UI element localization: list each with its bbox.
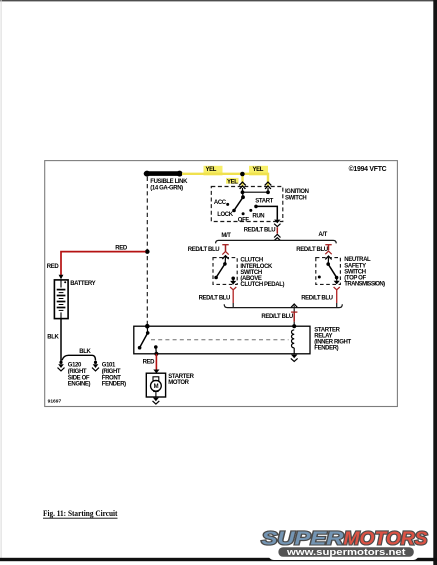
label G120: [68, 362, 91, 387]
svg-text:YEL: YEL: [227, 179, 238, 185]
label G101: [102, 362, 126, 387]
contact LOCK: [232, 209, 236, 213]
svg-text:(INNER RIGHT: (INNER RIGHT: [314, 340, 351, 346]
wire relay pivot stem: [146, 326, 148, 333]
figure caption: [43, 508, 118, 518]
svg-text:SWITCH: SWITCH: [344, 269, 365, 275]
contact (clutch switch output): [231, 277, 235, 281]
wire RED/LT BLU drop to neutral safety switch: [325, 245, 331, 255]
wire RED/LT BLU relay coil feed: [291, 306, 297, 327]
svg-text:STARTER: STARTER: [168, 374, 194, 380]
svg-text:FENDER): FENDER): [102, 382, 126, 388]
svg-text:FUSIBLE LINK: FUSIBLE LINK: [150, 179, 188, 185]
svg-text:(14 GA-GRN): (14 GA-GRN): [150, 186, 183, 192]
arrowhead NSS exit: [334, 281, 340, 285]
svg-text:TRANSMISSION): TRANSMISSION): [344, 282, 385, 288]
wire RED battery to junction: [61, 252, 146, 278]
wire YEL horizontal from fusible link to ignition switch: [182, 166, 268, 187]
switch blade (clutch interlock, open): [216, 264, 225, 278]
svg-text:G101: G101: [102, 362, 116, 368]
svg-text:CLUTCH: CLUTCH: [240, 258, 262, 264]
svg-text:RED: RED: [115, 246, 128, 252]
contact (relay output): [154, 345, 158, 349]
dashed feed line from fusible link to starter relay: [146, 177, 148, 326]
wire RED/LT BLU clutch switch to join bus: [232, 290, 234, 308]
label STARTER MOTOR: [168, 374, 194, 386]
wire RED relay to starter motor: [155, 354, 157, 370]
switch blade (ignition): [234, 197, 243, 210]
svg-text:SAFETY: SAFETY: [344, 263, 366, 269]
svg-text:STARTER: STARTER: [314, 327, 340, 333]
starter motor box: [146, 373, 165, 397]
svg-text:A/T: A/T: [318, 232, 327, 238]
svg-text:Fig. 11: Starting Circuit: Fig. 11: Starting Circuit: [43, 508, 118, 518]
svg-text:(RIGHT: (RIGHT: [68, 369, 87, 375]
svg-text:SWITCH: SWITCH: [285, 196, 306, 202]
battery: [54, 280, 68, 319]
svg-text:SUPER: SUPER: [262, 528, 345, 549]
connector halves into branch bus: [274, 234, 280, 240]
contact (NSS output): [335, 276, 339, 280]
contact RUN: [249, 209, 252, 212]
clutch interlock switch box: [213, 258, 237, 285]
contact START: [254, 205, 258, 209]
svg-text:RED/LT BLU: RED/LT BLU: [296, 247, 327, 253]
neutral safety switch box: [316, 258, 341, 285]
svg-text:BATTERY: BATTERY: [70, 281, 95, 287]
junction dot on YEL wire: [240, 172, 245, 177]
svg-text:BLK: BLK: [47, 335, 59, 341]
wire clutch output exit: [232, 278, 234, 281]
relay armature dashed link: [151, 339, 289, 341]
wire BLK ground strap G120 to G101: [62, 355, 96, 360]
svg-text:CLUTCH PEDAL): CLUTCH PEDAL): [240, 282, 284, 288]
svg-text:ENGINE): ENGINE): [68, 382, 91, 388]
svg-text:©1994 VFTC: ©1994 VFTC: [349, 165, 387, 173]
diagram border frame: [45, 161, 398, 407]
svg-text:www.supermotors.net: www.supermotors.net: [286, 547, 406, 557]
svg-text:M: M: [154, 384, 159, 390]
connector terminal (left, ignition switch): [239, 182, 246, 189]
switch blade (NSS, closed): [328, 264, 336, 277]
svg-text:RED/LT BLU: RED/LT BLU: [199, 296, 230, 302]
svg-text:START: START: [255, 199, 273, 205]
label IGNITION SWITCH: [285, 189, 309, 202]
svg-text:RED/LT BLU: RED/LT BLU: [244, 228, 275, 234]
wire NSS output exit: [336, 278, 338, 281]
svg-text:(RIGHT: (RIGHT: [102, 369, 121, 375]
svg-text:RED/LT BLU: RED/LT BLU: [188, 247, 219, 253]
ground (relay coil): [291, 348, 298, 362]
connector terminal (clutch switch top): [222, 256, 228, 263]
svg-text:91697: 91697: [48, 399, 62, 405]
node NSS pivot: [326, 262, 330, 266]
page frame bottom bar: [0, 558, 437, 561]
svg-text:RUN: RUN: [252, 213, 264, 219]
wire RED/LT BLU NSS to join bus: [336, 290, 338, 308]
wire RED/LT BLU tick (START): [276, 227, 278, 233]
svg-text:G120: G120: [68, 362, 82, 368]
node relay feed (on box top): [145, 324, 150, 329]
connector terminal (right, ignition switch): [265, 182, 272, 189]
ignition switch box: [211, 187, 282, 222]
contact (blade end): [214, 276, 218, 280]
ground G120: [58, 361, 65, 371]
arrowhead START exit: [274, 220, 280, 224]
wire ignition switch common bus: [241, 188, 270, 194]
arrowhead clutch exit: [230, 281, 236, 285]
wire YEL branch to left ignition terminal: [226, 174, 243, 187]
node ignition pivot: [241, 192, 245, 199]
starter motor symbol: [151, 377, 162, 397]
supermotors watermark: [262, 528, 429, 560]
wire BLK battery to ground: [60, 319, 62, 361]
wire branch bus M/T - A/T: [216, 240, 337, 243]
node relay coil feed (on box top): [292, 324, 296, 328]
svg-text:M/T: M/T: [221, 233, 231, 239]
connector half below START arrow: [274, 224, 280, 227]
fusible link value label: [150, 179, 188, 191]
relay coil: [292, 330, 295, 348]
svg-text:(TOP OF: (TOP OF: [344, 276, 366, 282]
page frame right edge: [433, 0, 437, 565]
svg-text:FENDER): FENDER): [314, 346, 338, 352]
wire RED/LT BLU drop to clutch interlock switch: [222, 245, 228, 255]
svg-text:IGNITION: IGNITION: [285, 189, 309, 195]
wire relay output to box edge: [155, 347, 158, 354]
label STARTER RELAY: [314, 327, 351, 351]
contact (NSS spare): [318, 276, 321, 279]
svg-text:SWITCH: SWITCH: [240, 270, 261, 276]
connector half on join bus: [291, 304, 297, 307]
svg-text:RED/LT BLU: RED/LT BLU: [261, 314, 292, 320]
svg-text:FRONT: FRONT: [102, 375, 121, 381]
svg-text:YEL: YEL: [253, 167, 264, 173]
ground G101: [92, 361, 99, 371]
svg-text:YEL: YEL: [206, 167, 217, 173]
svg-text:RED/LT BLU: RED/LT BLU: [301, 296, 332, 302]
arrowhead into battery: [59, 275, 64, 280]
svg-text:(ABOVE: (ABOVE: [240, 276, 261, 282]
connector half (red) below clutch switch: [230, 287, 236, 290]
svg-text:OFF: OFF: [238, 217, 250, 223]
label CLUTCH INTERLOCK SWITCH: [240, 258, 284, 288]
wire START output: [256, 206, 277, 219]
connector half (red) below NSS: [334, 287, 340, 290]
fusible link: [144, 171, 183, 177]
wire join bus to starter relay: [224, 304, 342, 307]
page frame left edge: [1, 0, 2, 560]
node relay output (on box bottom): [154, 352, 158, 356]
svg-text:INTERLOCK: INTERLOCK: [240, 264, 273, 270]
svg-text:SIDE OF: SIDE OF: [68, 375, 90, 381]
svg-text:RED: RED: [143, 359, 156, 365]
contact OFF: [242, 212, 245, 215]
svg-text:MOTOR: MOTOR: [168, 380, 189, 386]
svg-text:RELAY: RELAY: [314, 333, 332, 339]
svg-text:ACC: ACC: [214, 200, 227, 206]
connector terminal (NSS top): [325, 256, 331, 263]
svg-text:RED: RED: [47, 264, 60, 270]
svg-text:LOCK: LOCK: [217, 212, 234, 218]
page frame top edge: [0, 0, 437, 1]
label NEUTRAL SAFETY SWITCH: [344, 257, 385, 287]
starter relay box: [134, 326, 310, 354]
svg-text:NEUTRAL: NEUTRAL: [344, 257, 371, 263]
ground (starter motor): [153, 398, 160, 405]
switch blade (relay, open): [140, 333, 148, 348]
node junction RED feed: [145, 249, 150, 254]
contact (relay blade end): [138, 346, 142, 350]
node relay pivot: [146, 331, 150, 335]
svg-text:BLK: BLK: [79, 349, 91, 355]
svg-text:MOTORS: MOTORS: [344, 528, 429, 549]
arrowhead into starter motor: [153, 370, 159, 374]
contact ACC: [226, 203, 229, 206]
node clutch switch pivot: [223, 262, 227, 266]
